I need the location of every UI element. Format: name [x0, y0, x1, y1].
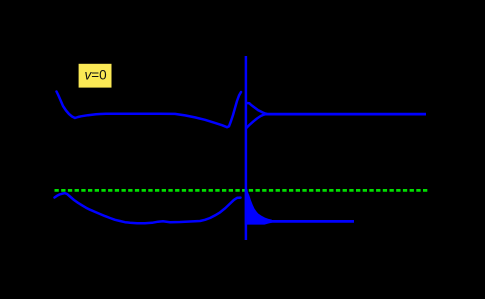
blue vertical line (shock front) [245, 56, 248, 240]
bottom blue curve left segment (velocity profile) [55, 193, 241, 223]
small dash tip left of vertical line (peak of bottom curve) [237, 197, 241, 199]
green dashed horizontal reference line v=0 [55, 189, 428, 192]
top blue curve left segment (pre-shock profile) [57, 92, 242, 128]
svg-text:v=0: v=0 [85, 68, 107, 83]
top blue flat line right segment [266, 113, 426, 116]
cusp upper branch right of vertical line [247, 103, 267, 114]
yellow label box [79, 64, 112, 88]
bottom blue flat line right segment [268, 220, 354, 223]
cusp lower branch right of vertical line [247, 114, 267, 128]
filled decaying oscillation region right of shock [245, 189, 272, 225]
